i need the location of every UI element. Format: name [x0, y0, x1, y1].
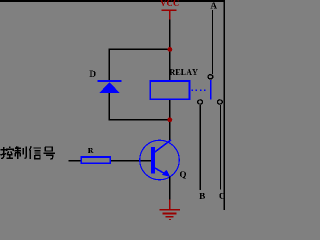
wire B — [200, 105, 201, 190]
contact circle C — [218, 100, 223, 104]
relay armature — [210, 80, 212, 99]
transistor Q1 — [140, 140, 180, 180]
label A — [210, 2, 216, 8]
wire: relay bottom to transistor collector — [169, 100, 170, 141]
power symbol VCC — [160, 0, 179, 19]
right border line — [224, 0, 225, 210]
relay dashed link — [192, 89, 209, 91]
diode D — [98, 80, 122, 93]
wire C — [220, 105, 221, 189]
label B — [199, 193, 205, 199]
wire: control signal to resistor — [68, 160, 80, 161]
label 控制信号 (control signal) drawn as strokes — [0, 146, 13, 158]
top border band — [0, 0, 225, 2]
label C — [219, 193, 224, 199]
resistor R — [81, 157, 110, 163]
wire: VCC stem down to relay top — [169, 20, 170, 81]
label R — [88, 148, 93, 153]
wire: top horizontal to diode branch — [109, 49, 171, 50]
label RELAY — [170, 69, 198, 75]
contact circle A — [208, 75, 213, 79]
wire: diode branch vertical upper — [109, 49, 110, 80]
contact circle B — [198, 100, 203, 104]
relay coil box — [150, 81, 189, 99]
wire: diode branch vertical lower — [109, 93, 110, 121]
wire: resistor to base — [111, 160, 152, 161]
wire: emitter down — [169, 177, 170, 200]
wire A — [212, 10, 213, 74]
label D — [89, 71, 95, 77]
ground — [159, 199, 180, 220]
node junction dot upper — [168, 47, 173, 52]
node junction dot lower — [168, 117, 173, 122]
label Q — [180, 171, 186, 178]
wire: bottom horizontal diode to collector node — [109, 119, 171, 120]
